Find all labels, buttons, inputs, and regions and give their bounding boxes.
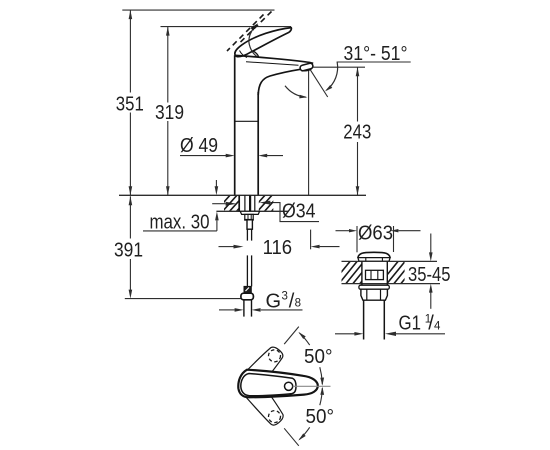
svg-text:Ø 49: Ø 49 bbox=[180, 135, 218, 157]
svg-text:8: 8 bbox=[295, 298, 301, 310]
svg-text:4: 4 bbox=[434, 321, 441, 333]
svg-text:Ø63: Ø63 bbox=[358, 223, 393, 245]
svg-text:116: 116 bbox=[263, 237, 293, 259]
svg-text:391: 391 bbox=[114, 239, 143, 261]
svg-text:31°- 51°: 31°- 51° bbox=[344, 43, 408, 65]
svg-text:319: 319 bbox=[155, 102, 184, 124]
svg-text:243: 243 bbox=[343, 122, 371, 144]
svg-text:351: 351 bbox=[116, 93, 144, 115]
svg-text:Ø34: Ø34 bbox=[282, 201, 316, 223]
svg-text:max. 30: max. 30 bbox=[150, 211, 210, 233]
svg-text:G1: G1 bbox=[399, 313, 422, 335]
svg-text:G: G bbox=[266, 290, 282, 312]
svg-text:50°: 50° bbox=[306, 406, 335, 428]
svg-text:1: 1 bbox=[425, 314, 431, 326]
svg-text:3: 3 bbox=[282, 290, 288, 302]
svg-text:35-45: 35-45 bbox=[408, 264, 451, 286]
svg-text:50°: 50° bbox=[304, 346, 333, 368]
